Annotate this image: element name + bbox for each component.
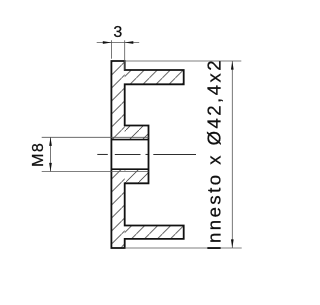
svg-text:Innesto x Ø42,4x2: Innesto x Ø42,4x2 [204,58,225,251]
hatched section: bottom skirt wall [125,226,184,239]
hatched section: hub lower [125,169,149,183]
hatched section: flange upper part [111,61,124,140]
dia arrow up [231,61,234,70]
M8 arrow up [49,137,52,146]
thread minor dia thick lines [111,139,148,141]
hatched section: flange lower part [111,169,124,248]
dim 3: arrow right-pointing [103,41,112,44]
svg-text:3: 3 [113,24,122,41]
hatched section: hub upper [125,126,149,140]
dia 42.4 extension lines [125,60,242,62]
dim 3: extension lines [110,40,112,59]
svg-text:M8: M8 [30,142,47,167]
dim 3: arrow left-pointing [125,41,134,44]
M8 dimension line [50,137,52,171]
part outline (thick) [111,61,183,248]
thread major dia thin lines + M8 extension lines [42,136,149,138]
hatched section: top skirt wall [125,70,184,84]
M8 arrow down [49,163,52,172]
centerline dash-dot [97,153,196,155]
dia arrow down [231,239,234,248]
dim 3: dimension line [97,42,140,44]
dia 42.4 dimension line [231,61,233,248]
